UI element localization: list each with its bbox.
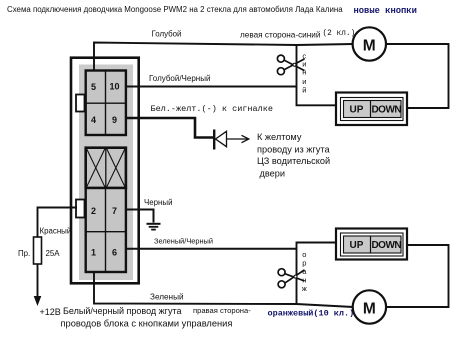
svg-text:ЦЗ водительской: ЦЗ водительской [257, 156, 330, 166]
svg-text:9: 9 [112, 115, 117, 125]
wire: pin9 Бел.-желт. to diode [127, 118, 214, 138]
svg-text:6: 6 [112, 248, 117, 258]
tab upper [76, 95, 85, 112]
svg-text:й: й [302, 86, 306, 95]
svg-text:Голубой/Черный: Голубой/Черный [149, 74, 210, 83]
svg-text:Голубой: Голубой [152, 30, 182, 39]
motor M2 [353, 290, 386, 323]
svg-text:Зеленый/Черный: Зеленый/Черный [154, 237, 213, 246]
svg-text:(2 кл.): (2 кл.) [323, 30, 356, 38]
connector block outer box [71, 58, 139, 284]
svg-text:Зеленый: Зеленый [150, 293, 184, 302]
label: оранж (vertical) [302, 250, 307, 293]
label: синий (vertical) [302, 52, 306, 95]
svg-text:DOWN: DOWN [371, 240, 401, 251]
svg-text:Белый/черный провод жгута: Белый/черный провод жгута [63, 306, 181, 316]
wire: pin5 blue wire up and right to motor M1 [94, 43, 353, 72]
svg-text:М: М [363, 37, 376, 54]
svg-text:1: 1 [91, 248, 96, 258]
tab lower [76, 200, 85, 218]
svg-text:двери: двери [260, 169, 286, 179]
wire: box B2 right to vertical then motor M2 right [387, 245, 449, 307]
svg-text:ж: ж [302, 284, 307, 293]
wire: pin1 Зеленый down and right to motor M2 [94, 272, 353, 307]
svg-text:Черный: Черный [144, 198, 172, 207]
svg-text:DOWN: DOWN [371, 105, 401, 116]
connector gray body [79, 65, 133, 281]
svg-text:5: 5 [91, 82, 96, 92]
wire: vertical cut wire (оранж) to box B2 [297, 243, 336, 305]
svg-text:Красный: Красный [40, 227, 72, 236]
svg-text:4: 4 [91, 115, 96, 125]
diode D1 [214, 130, 249, 150]
svg-text:Бел.-желт.(-) к сигналке: Бел.-желт.(-) к сигналке [151, 104, 273, 114]
svg-text:Пр.: Пр. [18, 249, 30, 258]
svg-text:левая сторона-синий: левая сторона-синий [240, 31, 320, 40]
svg-text:UP: UP [350, 105, 364, 116]
buttons box B2 (UP/DOWN bottom) [336, 229, 407, 260]
svg-text:+12В: +12В [40, 307, 61, 317]
svg-text:М: М [363, 300, 376, 317]
svg-text:Схема подключения доводчика Mo: Схема подключения доводчика Mongoose PWM… [7, 5, 343, 14]
svg-text:10: 10 [109, 82, 119, 92]
wire: pin6 Зеленый/Черный to vertical orange wire [127, 248, 297, 250]
buttons box B1 (UP/DOWN top) [336, 93, 407, 126]
svg-text:2: 2 [91, 206, 96, 216]
wire: motor M1 right to vertical then down to box B1 right [387, 44, 449, 108]
keying block with X [86, 148, 126, 188]
fuse Пр 25А [34, 237, 42, 264]
svg-text:7: 7 [112, 206, 117, 216]
svg-text:К желтому: К желтому [257, 132, 302, 142]
wire: pin7 Черный to ground [127, 210, 154, 223]
pin grid 5/10/4/9 [86, 71, 126, 136]
wire: vertical cut wire (синий) down to UP/DOWN box B1 [297, 44, 336, 105]
svg-text:проводов блока с кнопками упра: проводов блока с кнопками управления [61, 319, 233, 329]
svg-text:проводу из жгута: проводу из жгута [257, 144, 330, 154]
wire: fuse down to +12V arrow [37, 264, 39, 298]
scissors cut S2 [278, 269, 304, 288]
svg-text:25А: 25А [46, 249, 61, 258]
svg-text:новые кнопки: новые кнопки [354, 6, 417, 16]
ground GND [147, 224, 161, 230]
wire: pin2 Красный to fuse [38, 208, 78, 238]
motor M1 [353, 27, 386, 60]
svg-text:оранжевый(10 кл.): оранжевый(10 кл.) [268, 309, 355, 319]
wire: pin10 Голубой/Черный to vertical wire [127, 86, 297, 88]
scissors cut S1 [277, 55, 304, 75]
label: К желтому проводу из жгута ЦЗ водительской двери [257, 132, 330, 178]
svg-text:UP: UP [350, 240, 364, 251]
svg-text:правая сторона-: правая сторона- [193, 306, 251, 315]
arrow +12V [34, 296, 42, 306]
pin grid 2/7/1/6 [86, 188, 126, 272]
